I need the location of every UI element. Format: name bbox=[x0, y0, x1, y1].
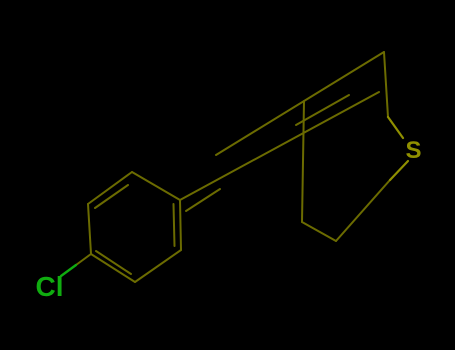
benzene ring edge A-B (top-left) bbox=[88, 172, 132, 204]
chain double bond partner line upper segment bbox=[296, 95, 349, 125]
right ring long diagonal edge from apex V1 down-left bbox=[216, 52, 384, 155]
benzene ring edge E-F (right) bbox=[180, 200, 181, 250]
chain double bond partner line near F bbox=[186, 189, 220, 211]
benzene inner double bond line on edge E-F bbox=[174, 204, 175, 246]
atom label S (sulfur) bbox=[406, 139, 422, 163]
bond C-Cl carbon half (dark) bbox=[76, 254, 91, 265]
benzene inner double bond line on edge C-D bbox=[96, 251, 131, 274]
benzene ring edge D-E (bottom-right) bbox=[135, 250, 181, 282]
benzene ring edge F-A (top-right) bbox=[132, 172, 180, 200]
bond S-C3 bbox=[390, 161, 408, 180]
right ring edge V4-C3 bbox=[336, 180, 390, 241]
bond C1-S bbox=[388, 117, 403, 138]
right ring left vertical edge bbox=[302, 101, 304, 222]
right ring bottom edge V3-V4 bbox=[302, 222, 336, 241]
bond C-Cl chlorine half (green) bbox=[61, 265, 76, 276]
atom label Cl (chlorine) bbox=[36, 273, 64, 301]
benzene inner double bond line on edge A-B bbox=[95, 185, 128, 208]
chain main line from benzene vertex F up-right to right ring edge bbox=[180, 92, 379, 200]
benzene ring edge C-D (bottom-left) bbox=[91, 254, 135, 282]
right ring edge C1-V1 (right vertical) bbox=[384, 52, 388, 117]
benzene ring edge B-C (left) bbox=[88, 204, 91, 254]
